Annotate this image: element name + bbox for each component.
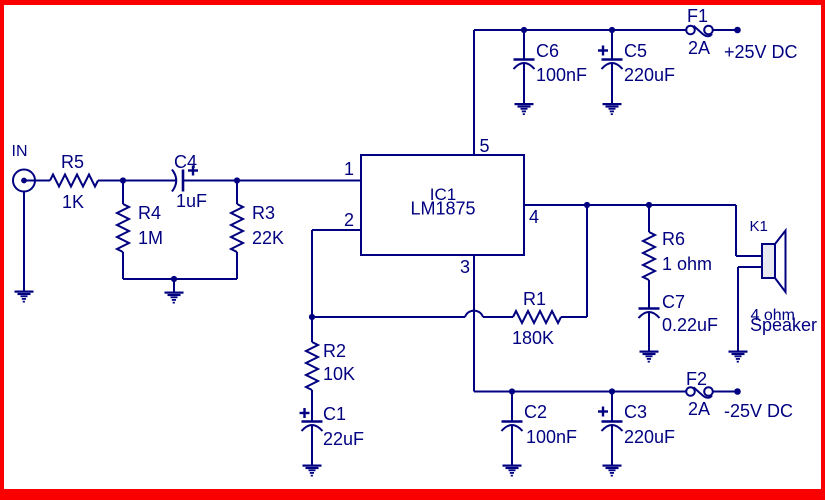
svg-text:IN: IN bbox=[12, 143, 28, 160]
ground (C6) bbox=[515, 103, 534, 115]
svg-text:2: 2 bbox=[344, 210, 354, 230]
wire hop over pin 3 line bbox=[465, 311, 483, 317]
svg-text:Speaker: Speaker bbox=[750, 315, 817, 335]
svg-text:F1: F1 bbox=[687, 6, 708, 26]
polarity + of C1 bbox=[300, 408, 310, 418]
svg-text:3: 3 bbox=[460, 257, 470, 277]
wire R6 top stub bbox=[648, 205, 650, 232]
resistor R1 bbox=[513, 311, 561, 323]
op-amp IC1 LM1875 body bbox=[361, 155, 524, 255]
svg-text:1M: 1M bbox=[138, 228, 163, 248]
wire R2 top stub bbox=[311, 317, 313, 342]
wire R4 bottom bbox=[122, 252, 124, 279]
terminal +25V bbox=[734, 27, 741, 34]
wire pin 2 down bbox=[311, 230, 313, 317]
ground (speaker) bbox=[729, 351, 748, 363]
node junction C5 top bbox=[609, 27, 615, 33]
wire -25V rail bbox=[474, 391, 686, 393]
wire speaker top terminal bbox=[736, 255, 762, 257]
svg-text:220uF: 220uF bbox=[624, 65, 675, 85]
wire speaker to ground bbox=[737, 267, 739, 351]
ground (C5) bbox=[603, 103, 622, 115]
wire C3 stub bbox=[611, 392, 613, 421]
capacitor C2 bbox=[502, 422, 523, 432]
svg-text:R1: R1 bbox=[523, 289, 546, 309]
wire C3 to ground bbox=[611, 426, 613, 465]
resistor R2 bbox=[306, 342, 318, 390]
capacitor C6 bbox=[514, 60, 535, 70]
wire ground stem bbox=[173, 279, 175, 292]
wire F2 to terminal bbox=[713, 391, 738, 393]
node junction C3 top bbox=[609, 388, 615, 394]
wire R1 to riser bbox=[561, 316, 587, 318]
wire +25V rail bbox=[474, 29, 686, 31]
wire pin 2 horizontal bbox=[312, 229, 361, 231]
ground (input jack) bbox=[15, 291, 34, 303]
resistor R6 bbox=[643, 232, 655, 280]
wire F1 to terminal bbox=[713, 29, 738, 31]
svg-text:100nF: 100nF bbox=[536, 65, 587, 85]
wire C5 to ground bbox=[611, 64, 613, 103]
svg-text:C3: C3 bbox=[624, 402, 647, 422]
svg-text:100nF: 100nF bbox=[526, 427, 577, 447]
svg-text:180K: 180K bbox=[512, 328, 554, 348]
fuse F1 bbox=[686, 26, 713, 37]
svg-text:0.22uF: 0.22uF bbox=[662, 315, 718, 335]
node junction feedback tap bbox=[584, 202, 590, 208]
capacitor C7 bbox=[639, 309, 660, 319]
node junction C2 top bbox=[509, 388, 515, 394]
wire R3 top stub bbox=[236, 181, 238, 205]
svg-text:1K: 1K bbox=[62, 192, 84, 212]
svg-text:C2: C2 bbox=[524, 402, 547, 422]
wire R6 to C7 bbox=[648, 280, 650, 308]
capacitor C1 bbox=[302, 422, 323, 432]
fuse F2 bbox=[686, 387, 713, 398]
svg-text:C6: C6 bbox=[536, 41, 559, 61]
svg-text:22uF: 22uF bbox=[323, 429, 364, 449]
svg-text:+25V DC: +25V DC bbox=[724, 42, 798, 62]
svg-text:-25V DC: -25V DC bbox=[724, 401, 793, 421]
node junction C6 top bbox=[521, 27, 527, 33]
svg-text:R3: R3 bbox=[252, 203, 275, 223]
svg-text:4: 4 bbox=[529, 207, 539, 227]
svg-text:220uF: 220uF bbox=[624, 427, 675, 447]
polarity + of C3 bbox=[598, 407, 608, 417]
resistor R5 bbox=[50, 175, 98, 187]
svg-text:C4: C4 bbox=[174, 152, 197, 172]
ground (C3) bbox=[603, 465, 622, 477]
speaker K1 bbox=[762, 231, 786, 293]
wire C2 to ground bbox=[511, 426, 513, 465]
ground (C7) bbox=[640, 351, 659, 363]
svg-text:22K: 22K bbox=[252, 228, 284, 248]
svg-text:10K: 10K bbox=[323, 364, 355, 384]
node junction pin2/R2/R1 bbox=[309, 314, 315, 320]
wire R4-R3 ground rail bbox=[123, 278, 237, 280]
wire C6 stub bbox=[523, 30, 525, 59]
wire C7 to ground bbox=[648, 313, 650, 351]
wire feedback to R1 bbox=[483, 316, 513, 318]
wire pin 5 to +rail bbox=[473, 30, 475, 155]
wire C2 stub bbox=[511, 392, 513, 421]
wire C1 to ground bbox=[311, 426, 313, 465]
resistor R3 bbox=[231, 204, 243, 252]
ground (C2) bbox=[503, 465, 522, 477]
wire IN jack to R5 bbox=[24, 180, 50, 182]
svg-text:2A: 2A bbox=[688, 38, 710, 58]
wire C6 to ground bbox=[523, 64, 525, 103]
svg-text:R6: R6 bbox=[662, 229, 685, 249]
svg-text:R4: R4 bbox=[138, 203, 161, 223]
ground (R4/R3 rail) bbox=[165, 292, 184, 304]
svg-text:1: 1 bbox=[344, 159, 354, 179]
wire R2 to C1 bbox=[311, 390, 313, 421]
ground (C1) bbox=[303, 465, 322, 477]
terminal -25V bbox=[734, 388, 741, 395]
polarity + of C4 bbox=[188, 166, 198, 176]
svg-text:C1: C1 bbox=[323, 404, 346, 424]
wire C4 to IC1 pin 1 bbox=[184, 180, 361, 182]
capacitor C3 bbox=[602, 422, 623, 432]
svg-text:R5: R5 bbox=[61, 152, 84, 172]
wire R3 bottom bbox=[236, 252, 238, 279]
svg-text:2A: 2A bbox=[688, 399, 710, 419]
wire output down to speaker bbox=[735, 205, 737, 256]
wire speaker bottom terminal bbox=[738, 266, 762, 268]
svg-text:C5: C5 bbox=[624, 41, 647, 61]
svg-text:5: 5 bbox=[480, 136, 490, 156]
svg-text:R2: R2 bbox=[323, 341, 346, 361]
node junction R6 tap bbox=[646, 202, 652, 208]
wire feedback riser bbox=[586, 205, 588, 317]
wire IN jack to ground bbox=[23, 192, 25, 291]
wire R5 to C4 bbox=[98, 180, 176, 182]
wire R4 top stub bbox=[122, 181, 124, 205]
svg-text:LM1875: LM1875 bbox=[410, 199, 475, 219]
resistor R4 bbox=[117, 204, 129, 252]
wire feedback left segment bbox=[312, 316, 465, 318]
node junction ground rail bbox=[171, 276, 177, 282]
capacitor C4 bbox=[172, 170, 183, 192]
wire pin 3 down bbox=[473, 255, 475, 392]
svg-text:C7: C7 bbox=[662, 292, 685, 312]
connector J-IN (input jack) bbox=[13, 170, 35, 192]
node junction R5/R4/C4 bbox=[120, 177, 126, 183]
wire C5 stub bbox=[611, 30, 613, 59]
svg-text:1uF: 1uF bbox=[176, 191, 207, 211]
wire pin 4 output rail bbox=[524, 204, 736, 206]
svg-text:1 ohm: 1 ohm bbox=[662, 254, 712, 274]
node junction C4/R3/pin1 bbox=[234, 177, 240, 183]
svg-text:F2: F2 bbox=[686, 369, 707, 389]
svg-text:K1: K1 bbox=[750, 218, 768, 235]
polarity + of C5 bbox=[598, 46, 608, 56]
capacitor C5 bbox=[602, 60, 623, 70]
